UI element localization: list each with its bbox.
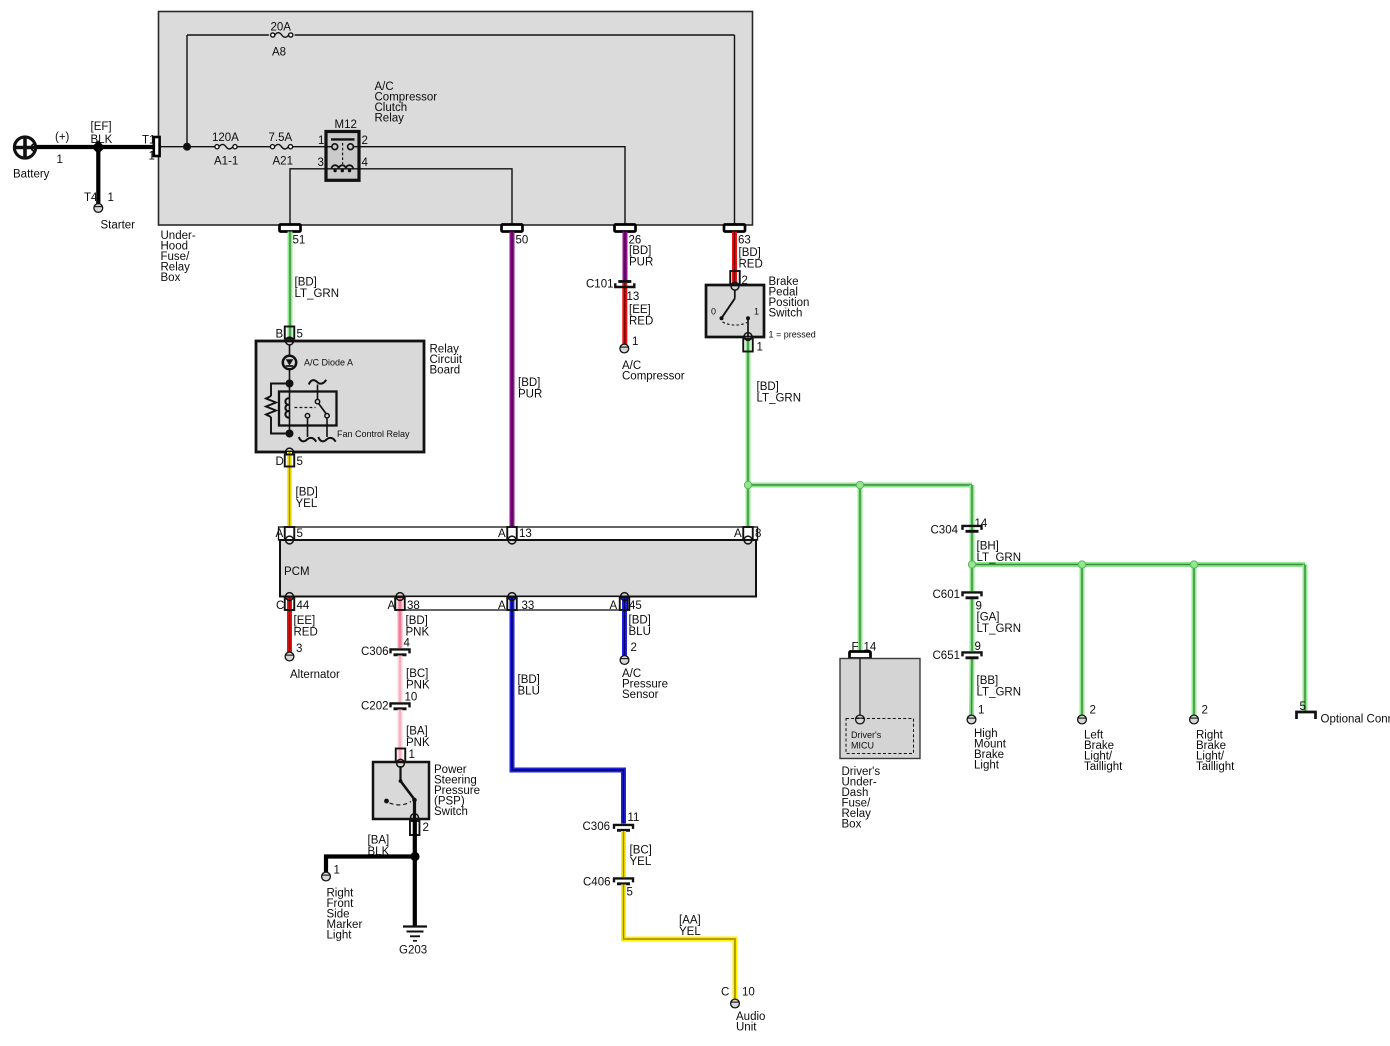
label [BD] YEL bbox=[296, 487, 318, 511]
svg-text:1: 1 bbox=[632, 336, 638, 348]
fan relay dashed link bbox=[295, 407, 316, 409]
high mount brake light label bbox=[974, 728, 1007, 772]
svg-text:Taillight: Taillight bbox=[1084, 761, 1123, 773]
svg-text:2: 2 bbox=[1090, 705, 1096, 717]
fuse A1-1 120A bbox=[212, 132, 239, 168]
PCM bottom strip bbox=[395, 597, 628, 611]
pin B5 relay board bbox=[276, 327, 303, 341]
relay M12 A/C compressor clutch relay bbox=[326, 132, 359, 181]
svg-text:PUR: PUR bbox=[518, 389, 542, 401]
label marker pin 1 bbox=[334, 865, 340, 877]
svg-text:BLU: BLU bbox=[518, 686, 540, 698]
label [AA] YEL bbox=[679, 915, 701, 939]
label [EE] RED C44 bbox=[294, 615, 318, 639]
label left brake pin 2 bbox=[1090, 705, 1096, 717]
label [BH] LT_GRN bbox=[977, 541, 1022, 565]
svg-text:[EF]: [EF] bbox=[91, 121, 112, 133]
optional connector bbox=[1297, 712, 1316, 719]
label battery pin 1 bbox=[57, 154, 63, 166]
label alternator pin 3 bbox=[296, 643, 302, 655]
connector exit 51 bbox=[280, 225, 306, 247]
fan relay switch bbox=[305, 385, 329, 438]
connector exit 63 bbox=[724, 225, 751, 247]
pin A8 bbox=[734, 527, 761, 540]
label [BD] LT_GRN wire 51 bbox=[295, 277, 340, 301]
svg-text:A: A bbox=[388, 600, 396, 612]
relay circuit board bbox=[256, 341, 424, 452]
label T4 bbox=[84, 192, 98, 204]
label [BA] BLK bbox=[368, 835, 390, 859]
svg-text:1: 1 bbox=[978, 705, 984, 717]
label [GA] LT_GRN bbox=[977, 612, 1022, 636]
wire between fuses bbox=[237, 146, 270, 148]
svg-text:MICU: MICU bbox=[851, 741, 874, 751]
svg-text:[BC]: [BC] bbox=[630, 845, 652, 857]
wire [BD] RED exit 63 to brake switch bbox=[732, 232, 737, 285]
under-hood box label bbox=[161, 230, 196, 284]
svg-text:A: A bbox=[734, 528, 742, 540]
label [BA] PNK bbox=[406, 726, 430, 750]
battery label bbox=[13, 169, 50, 181]
wire 20A row down to exit 63 bbox=[734, 35, 736, 225]
PSP switch lever bbox=[384, 766, 417, 821]
connector C406 pin 5 bbox=[583, 877, 633, 899]
relay board label bbox=[430, 344, 463, 377]
svg-text:B: B bbox=[276, 329, 284, 341]
svg-text:4: 4 bbox=[362, 157, 369, 169]
A/C pressure sensor label bbox=[622, 668, 668, 701]
svg-text:Board: Board bbox=[430, 365, 461, 377]
wire [EE] RED C101 to A/C compressor bbox=[622, 283, 627, 345]
PCM connector strip A bbox=[279, 527, 758, 540]
label pressure sensor pin 2 bbox=[631, 642, 637, 654]
svg-text:[BD]: [BD] bbox=[406, 615, 428, 627]
svg-text:Relay: Relay bbox=[375, 113, 405, 125]
wire [BD] BLU PCM A45 to pressure sensor bbox=[622, 597, 627, 656]
pin 1 brake switch bbox=[743, 339, 763, 354]
label T1 pin 1 bbox=[149, 151, 155, 163]
relay M12 pin 3 label bbox=[318, 157, 324, 169]
node junction at T1 bus bbox=[183, 143, 191, 151]
brake switch position 0 label bbox=[711, 307, 716, 317]
label 1 = pressed bbox=[769, 330, 816, 340]
label [BC] PNK bbox=[406, 668, 430, 692]
svg-text:51: 51 bbox=[293, 235, 306, 247]
svg-text:7.5A: 7.5A bbox=[269, 132, 293, 144]
battery terminal arc bbox=[31, 144, 35, 152]
svg-text:[BD]: [BD] bbox=[757, 381, 779, 393]
svg-text:C: C bbox=[276, 600, 284, 612]
audio unit terminal bbox=[731, 999, 740, 1008]
svg-text:5: 5 bbox=[297, 528, 303, 540]
brake switch lever bbox=[720, 290, 735, 320]
svg-text:D: D bbox=[276, 456, 284, 468]
ground G203 bbox=[403, 927, 427, 941]
svg-text:1: 1 bbox=[757, 342, 763, 354]
node coil bottom junction bbox=[286, 430, 294, 438]
label [BD] BLU A33 bbox=[518, 674, 540, 698]
svg-text:YEL: YEL bbox=[679, 926, 701, 938]
svg-text:13: 13 bbox=[627, 291, 640, 303]
svg-text:63: 63 bbox=[738, 235, 751, 247]
svg-text:1 = pressed: 1 = pressed bbox=[769, 330, 816, 340]
fan control relay label bbox=[337, 429, 410, 439]
label right brake pin 2 bbox=[1202, 705, 1208, 717]
wire diode to fan relay coil bbox=[289, 369, 291, 433]
svg-text:M12: M12 bbox=[335, 119, 357, 131]
svg-text:A1-1: A1-1 bbox=[214, 156, 238, 168]
svg-text:RED: RED bbox=[294, 627, 318, 639]
label audio pin C bbox=[721, 987, 729, 999]
wire [BC] YEL C306 to C406 bbox=[621, 831, 626, 877]
svg-text:C: C bbox=[721, 987, 729, 999]
fan relay bottom hook left bbox=[299, 437, 316, 442]
A/C pressure sensor terminal bbox=[620, 656, 629, 665]
label [EE] RED bbox=[629, 304, 653, 328]
svg-text:A: A bbox=[276, 528, 284, 540]
svg-text:50: 50 bbox=[516, 235, 529, 247]
svg-text:G203: G203 bbox=[399, 945, 427, 957]
brake switch terminal circle top bbox=[731, 282, 739, 290]
connector C304 pin 14 bbox=[931, 518, 988, 537]
wire relay pin 3 to exit 51 bbox=[290, 169, 326, 225]
svg-text:1: 1 bbox=[334, 865, 340, 877]
svg-text:[BH]: [BH] bbox=[977, 541, 999, 553]
svg-text:LT_GRN: LT_GRN bbox=[757, 393, 802, 405]
connector C202 pin 10 bbox=[361, 692, 417, 713]
svg-text:C202: C202 bbox=[361, 701, 389, 713]
pin 2 PSP switch bbox=[410, 821, 429, 835]
right brake light label bbox=[1196, 730, 1235, 774]
svg-text:Unit: Unit bbox=[736, 1022, 757, 1034]
wire branch to right front marker bbox=[326, 857, 415, 873]
wire 20A row right segment bbox=[295, 34, 735, 36]
wire junction to starter bbox=[96, 147, 100, 204]
wire [BD] LT_GRN distribution bbox=[748, 485, 1305, 715]
svg-text:1: 1 bbox=[149, 151, 155, 163]
svg-text:PCM: PCM bbox=[284, 566, 310, 578]
label [BD] BLU A45 bbox=[629, 615, 651, 639]
connector C601 pin 9 bbox=[933, 589, 982, 613]
node battery junction bbox=[92, 141, 106, 155]
svg-text:0: 0 bbox=[711, 307, 716, 317]
alternator label bbox=[290, 669, 340, 681]
brake switch terminal circle bottom bbox=[744, 333, 752, 341]
pin A5 bbox=[276, 527, 303, 540]
alternator terminal bbox=[285, 652, 294, 661]
svg-text:1: 1 bbox=[754, 307, 759, 317]
terminal circle C44 bbox=[286, 593, 294, 601]
audio unit label bbox=[736, 1011, 765, 1034]
svg-text:PNK: PNK bbox=[406, 737, 430, 749]
svg-text:3: 3 bbox=[318, 157, 324, 169]
node green junction at BH row bbox=[968, 561, 975, 568]
label [BD] LT_GRN brake bbox=[757, 381, 802, 405]
svg-text:2: 2 bbox=[1202, 705, 1208, 717]
wire relay pin 4 to exit 50 bbox=[359, 169, 512, 225]
svg-text:Box: Box bbox=[842, 819, 862, 831]
terminal circle A8 bbox=[744, 536, 752, 544]
svg-text:C651: C651 bbox=[933, 650, 961, 662]
terminal circle A33 bbox=[508, 593, 516, 601]
brake pedal position switch bbox=[706, 285, 764, 337]
svg-text:4: 4 bbox=[404, 638, 411, 650]
wire junction up to 20A row bbox=[186, 35, 188, 147]
svg-text:5: 5 bbox=[297, 329, 303, 341]
svg-text:45: 45 bbox=[629, 600, 642, 612]
svg-text:PUR: PUR bbox=[629, 257, 653, 269]
svg-text:Sensor: Sensor bbox=[622, 689, 659, 701]
svg-text:[BA]: [BA] bbox=[406, 726, 428, 738]
svg-text:RED: RED bbox=[739, 259, 763, 271]
wire [BD] PUR exit 50 to PCM A13 bbox=[510, 232, 515, 541]
pin 1 PSP switch bbox=[396, 749, 415, 763]
svg-text:C304: C304 bbox=[931, 525, 959, 537]
svg-text:[BD]: [BD] bbox=[295, 277, 317, 289]
svg-text:Alternator: Alternator bbox=[290, 669, 340, 681]
svg-text:1: 1 bbox=[108, 192, 114, 204]
relay M12 pin 4 label bbox=[362, 157, 369, 169]
svg-text:[BB]: [BB] bbox=[977, 675, 999, 687]
svg-text:LT_GRN: LT_GRN bbox=[295, 288, 340, 300]
connector C306 pin 4 bbox=[361, 638, 411, 659]
svg-text:T1: T1 bbox=[142, 135, 155, 147]
drivers box label bbox=[842, 766, 881, 831]
svg-text:C306: C306 bbox=[583, 821, 611, 833]
svg-text:Battery: Battery bbox=[13, 169, 50, 181]
terminal circle A13 bbox=[508, 536, 516, 544]
wire [BA] BLK PSP to G203 bbox=[413, 820, 417, 926]
svg-text:13: 13 bbox=[519, 528, 532, 540]
svg-text:A21: A21 bbox=[273, 156, 293, 168]
terminal circle A45 bbox=[621, 593, 629, 601]
label [BD] RED bbox=[739, 247, 763, 271]
wire [BD] LT_GRN brake switch to PCM A8 bbox=[746, 337, 751, 540]
svg-text:[BD]: [BD] bbox=[629, 615, 651, 627]
terminal circle B5 bbox=[286, 337, 294, 345]
drivers box internal wire bbox=[859, 659, 861, 716]
svg-text:120A: 120A bbox=[212, 132, 239, 144]
drivers MICU terminal bbox=[856, 715, 865, 724]
connector C306 pin 11 bbox=[583, 812, 640, 833]
relay M12 pin 1 label bbox=[318, 135, 324, 147]
svg-text:5: 5 bbox=[297, 456, 303, 468]
wire [BC] PNK C306 to C202 bbox=[398, 656, 403, 703]
svg-text:Light: Light bbox=[974, 760, 1000, 772]
brake switch dashed arc bbox=[723, 322, 748, 325]
power steering pressure switch bbox=[373, 762, 429, 819]
fuse A8 20A bbox=[271, 22, 293, 59]
wire [EE] RED PCM C44 to alternator bbox=[287, 597, 292, 653]
A/C compressor terminal bbox=[620, 344, 629, 353]
wire [BD] PUR exit 26 to C101 bbox=[623, 232, 628, 282]
battery bbox=[14, 137, 35, 158]
svg-text:C101: C101 bbox=[586, 279, 614, 291]
diode A/C Diode A bbox=[283, 356, 296, 369]
connector exit 26 bbox=[615, 225, 642, 247]
svg-text:Optional Connector: Optional Connector bbox=[1321, 714, 1390, 726]
PSP dashed arc bbox=[390, 802, 412, 805]
A/C compressor label bbox=[622, 360, 685, 383]
under-hood fuse/relay box bbox=[159, 12, 753, 226]
svg-text:Switch: Switch bbox=[769, 308, 803, 320]
terminal circle A38 bbox=[396, 593, 404, 601]
svg-text:1: 1 bbox=[409, 749, 415, 761]
svg-text:[AA]: [AA] bbox=[679, 915, 701, 927]
svg-text:1: 1 bbox=[318, 135, 324, 147]
svg-text:[BC]: [BC] bbox=[406, 668, 428, 680]
wire [BD] BLU PCM A33 to C306 bbox=[512, 597, 624, 824]
label optional connector pin 5 bbox=[1300, 701, 1306, 713]
pin A38 bbox=[388, 597, 420, 612]
svg-text:(+): (+) bbox=[55, 132, 70, 144]
svg-text:A/C Diode A: A/C Diode A bbox=[304, 358, 353, 368]
svg-text:YEL: YEL bbox=[630, 856, 652, 868]
fan relay top hook bbox=[309, 380, 326, 385]
fuse A21 7.5A bbox=[269, 132, 293, 168]
brake switch position 1 label bbox=[754, 307, 759, 317]
svg-text:A: A bbox=[610, 600, 618, 612]
fan relay coil bbox=[285, 398, 289, 417]
svg-text:LT_GRN: LT_GRN bbox=[977, 687, 1022, 699]
wire battery to T1 [EF] BLK bbox=[36, 145, 159, 149]
label starter pin 1 bbox=[108, 192, 114, 204]
svg-text:2: 2 bbox=[362, 135, 368, 147]
fan relay bottom hook right bbox=[318, 437, 335, 442]
svg-text:Compressor: Compressor bbox=[622, 371, 685, 383]
svg-text:20A: 20A bbox=[271, 22, 292, 34]
svg-text:44: 44 bbox=[297, 600, 310, 612]
svg-text:5: 5 bbox=[627, 887, 633, 899]
brake switch contact 1 bbox=[746, 316, 750, 337]
drivers under-dash fuse/relay box bbox=[840, 659, 920, 759]
ground G203 label bbox=[399, 945, 427, 957]
PSP terminal circle bottom bbox=[411, 814, 419, 822]
svg-text:10: 10 bbox=[405, 692, 418, 704]
pin 2 brake switch bbox=[730, 271, 748, 287]
relay M12 pin 2 label bbox=[362, 135, 368, 147]
PSP switch label bbox=[434, 764, 480, 818]
A/C Diode A label bbox=[304, 358, 353, 368]
svg-text:[BA]: [BA] bbox=[368, 835, 390, 847]
optional connector label bbox=[1321, 714, 1390, 726]
wire fuse A21 to relay pin 1 bbox=[293, 146, 326, 148]
svg-text:A8: A8 bbox=[272, 47, 286, 59]
svg-text:F: F bbox=[852, 642, 859, 654]
svg-text:14: 14 bbox=[864, 642, 877, 654]
svg-text:11: 11 bbox=[628, 812, 640, 824]
label [BD] PNK bbox=[406, 615, 430, 639]
brake switch label bbox=[769, 276, 810, 320]
svg-text:3: 3 bbox=[296, 643, 302, 655]
svg-text:Driver's: Driver's bbox=[851, 730, 882, 740]
svg-text:10: 10 bbox=[742, 987, 755, 999]
resistor branch left bbox=[266, 384, 290, 434]
node green junction left brake bbox=[1078, 561, 1085, 568]
label high mount pin 1 bbox=[978, 705, 984, 717]
svg-text:[GA]: [GA] bbox=[977, 612, 1000, 624]
svg-text:YEL: YEL bbox=[296, 498, 318, 510]
pin A33 bbox=[498, 597, 534, 612]
svg-text:[BD]: [BD] bbox=[296, 487, 318, 499]
drivers MICU label bbox=[851, 730, 882, 751]
svg-text:[BD]: [BD] bbox=[518, 377, 540, 389]
fan control relay box bbox=[279, 392, 337, 426]
svg-text:Light: Light bbox=[327, 930, 353, 942]
connector T1 bbox=[154, 137, 160, 156]
svg-text:A: A bbox=[498, 600, 506, 612]
PSP terminal circle top bbox=[397, 759, 405, 767]
connector C651 pin 9 bbox=[933, 641, 982, 662]
svg-text:Fan Control Relay: Fan Control Relay bbox=[337, 429, 410, 439]
svg-text:2: 2 bbox=[423, 822, 429, 834]
pin C44 bbox=[276, 597, 310, 613]
svg-text:[BD]: [BD] bbox=[518, 674, 540, 686]
svg-text:[EE]: [EE] bbox=[294, 615, 316, 627]
label T1 bbox=[142, 135, 155, 147]
svg-text:1: 1 bbox=[57, 154, 63, 166]
svg-text:[BD]: [BD] bbox=[739, 247, 761, 259]
svg-text:[BD]: [BD] bbox=[629, 245, 651, 257]
wire into diode bbox=[289, 345, 291, 356]
wire battery bus to fuse A1-1 bbox=[159, 146, 215, 148]
svg-text:LT_GRN: LT_GRN bbox=[977, 623, 1022, 635]
svg-text:BLU: BLU bbox=[629, 626, 651, 638]
wire [BA] PNK C202 to PSP switch bbox=[398, 710, 403, 763]
label [BD] PUR bbox=[518, 377, 542, 401]
svg-text:Box: Box bbox=[161, 272, 181, 284]
left brake light label bbox=[1084, 730, 1123, 774]
label [BC] YEL bbox=[630, 845, 652, 869]
svg-text:Switch: Switch bbox=[434, 806, 468, 818]
label [BD] PUR wire 26 bbox=[629, 245, 653, 269]
node green junction at brake wire bbox=[744, 481, 751, 488]
right front side marker terminal bbox=[322, 872, 331, 881]
node PSP black junction bbox=[410, 852, 419, 861]
svg-text:C601: C601 bbox=[933, 589, 961, 601]
label [BB] LT_GRN bbox=[977, 675, 1022, 699]
high mount brake light terminal bbox=[967, 715, 976, 724]
svg-text:PNK: PNK bbox=[406, 680, 430, 692]
PCM box bbox=[280, 540, 756, 597]
left brake light terminal bbox=[1078, 715, 1087, 724]
relay M12 label bbox=[335, 119, 357, 131]
svg-text:C406: C406 bbox=[583, 877, 611, 889]
pin A45 bbox=[610, 597, 642, 612]
node diode bottom junction bbox=[286, 380, 294, 388]
svg-text:38: 38 bbox=[407, 600, 420, 612]
wire [BD] PNK PCM A38 to C306 bbox=[398, 597, 403, 649]
svg-text:8: 8 bbox=[755, 528, 761, 540]
connector F14 drivers box bbox=[850, 642, 877, 659]
node green junction at drivers box branch bbox=[856, 481, 863, 488]
svg-text:Starter: Starter bbox=[101, 220, 136, 232]
wire [BD] LT_GRN exit 51 to relay board bbox=[288, 232, 293, 342]
starter label bbox=[101, 220, 136, 232]
PCM label bbox=[284, 566, 310, 578]
svg-text:Taillight: Taillight bbox=[1196, 761, 1235, 773]
A/C compressor clutch relay label bbox=[375, 81, 438, 125]
right front side marker label bbox=[327, 888, 363, 942]
drivers MICU dashed box bbox=[846, 719, 914, 754]
svg-text:LT_GRN: LT_GRN bbox=[977, 552, 1022, 564]
node green junction right brake bbox=[1190, 561, 1197, 568]
terminal circle D5 bbox=[286, 448, 294, 456]
svg-text:2: 2 bbox=[631, 642, 637, 654]
pin A13 bbox=[498, 527, 532, 540]
wire 20A row left segment bbox=[187, 34, 269, 36]
right brake light terminal bbox=[1190, 715, 1199, 724]
